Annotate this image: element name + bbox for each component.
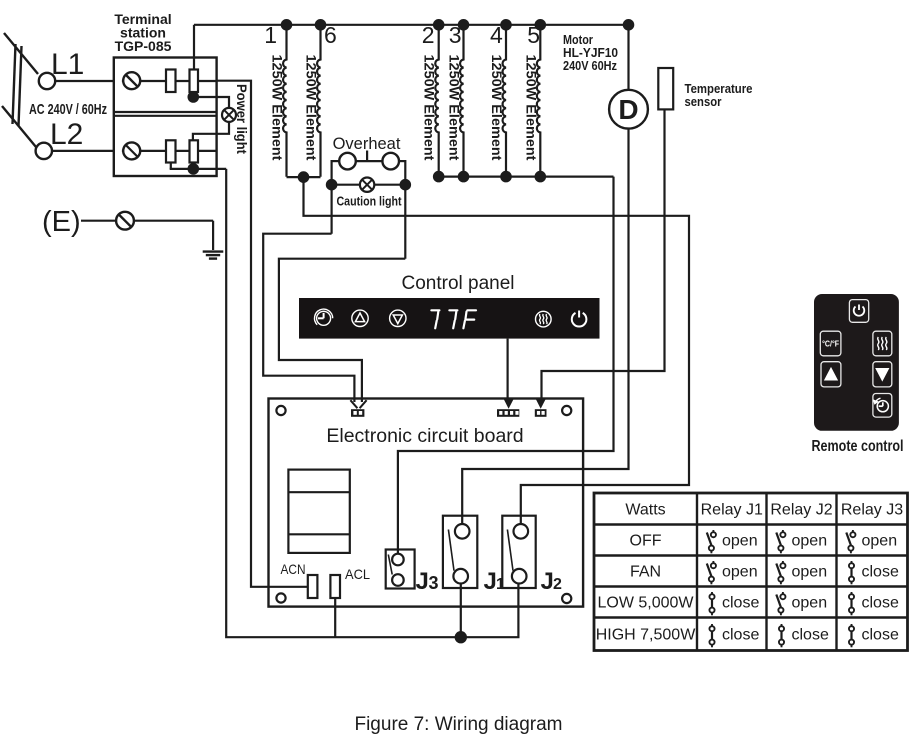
svg-text:Control panel: Control panel bbox=[401, 273, 514, 294]
node L1 input terminal bbox=[39, 73, 55, 89]
svg-text:close: close bbox=[792, 627, 829, 644]
node element bottom junction bbox=[433, 171, 445, 183]
wire control panel to board connector bbox=[507, 339, 509, 398]
label 1250W Element (2) bbox=[422, 55, 438, 161]
connector CN3 bbox=[535, 409, 547, 417]
heating element 2 (1250W) bbox=[435, 25, 438, 177]
svg-text:1250W Element: 1250W Element bbox=[523, 55, 539, 161]
fuse block L1a bbox=[166, 70, 176, 93]
relay state open (OFF J1) bbox=[707, 530, 758, 553]
caution light lamp bbox=[332, 178, 406, 192]
label element number 4 bbox=[490, 22, 503, 48]
relay state close (LOW 5,000W J1) bbox=[709, 592, 759, 615]
relay state open (LOW 5,000W J2) bbox=[776, 592, 827, 615]
svg-text:J: J bbox=[416, 568, 429, 595]
node L2 input terminal bbox=[36, 143, 52, 159]
heating element 4 (1250W) bbox=[503, 25, 506, 177]
label Overheat bbox=[333, 135, 401, 153]
label Terminal station TGP-085 bbox=[114, 11, 171, 54]
label Caution light bbox=[337, 195, 403, 209]
overheat switch bbox=[332, 151, 406, 170]
label Temperature sensor bbox=[685, 82, 753, 109]
svg-text:1250W Element: 1250W Element bbox=[489, 55, 505, 161]
svg-text:L1: L1 bbox=[51, 48, 84, 81]
node element bottom junction bbox=[535, 171, 547, 183]
svg-text:open: open bbox=[862, 533, 898, 550]
table header Relay J1 bbox=[701, 501, 763, 518]
label Power light bbox=[234, 84, 249, 154]
node element 6 top bbox=[315, 19, 327, 31]
control panel bezel bbox=[299, 298, 600, 339]
svg-text:TGP-085: TGP-085 bbox=[115, 38, 172, 54]
screw terminal L1 bbox=[122, 72, 217, 89]
label L1 bbox=[51, 48, 84, 81]
relay J2 bbox=[502, 516, 535, 588]
label element number 3 bbox=[449, 22, 462, 48]
svg-text:3: 3 bbox=[449, 22, 462, 48]
board mounting hole bbox=[562, 406, 571, 415]
label element number 6 bbox=[324, 22, 337, 48]
wire elements 2-5 to relay J3 bbox=[398, 177, 614, 554]
node element 4 top bbox=[500, 19, 512, 31]
heating element 6 (1250W) bbox=[317, 25, 320, 177]
svg-text:Watts: Watts bbox=[625, 501, 665, 518]
screw terminal E bbox=[116, 212, 134, 230]
label J1 bbox=[484, 568, 506, 595]
relay state close (HIGH 7,500W J2) bbox=[779, 624, 829, 647]
label J3 bbox=[416, 568, 439, 595]
svg-text:5: 5 bbox=[527, 22, 540, 48]
svg-text:Relay J3: Relay J3 bbox=[841, 501, 903, 518]
node element 3 top bbox=[458, 19, 470, 31]
svg-text:J: J bbox=[541, 568, 554, 595]
label 1250W Element (3) bbox=[447, 55, 463, 161]
svg-text:close: close bbox=[722, 627, 759, 644]
table row label FAN bbox=[630, 564, 661, 581]
label Control panel bbox=[401, 273, 514, 294]
svg-text:Motor: Motor bbox=[563, 33, 593, 47]
relay state open (OFF J2) bbox=[776, 530, 827, 553]
remote down button bbox=[873, 362, 892, 387]
svg-text:close: close bbox=[722, 595, 759, 612]
node element 1 top bbox=[281, 19, 293, 31]
svg-text:1: 1 bbox=[264, 22, 277, 48]
label element number 5 bbox=[527, 22, 540, 48]
table row label HIGH 7,500W bbox=[596, 627, 696, 644]
svg-text:Overheat: Overheat bbox=[333, 135, 401, 153]
ground symbol bbox=[203, 252, 224, 259]
relay state open (FAN J2) bbox=[776, 561, 827, 584]
wire L1 to ACN bbox=[217, 81, 308, 587]
remote heat button bbox=[873, 331, 892, 356]
node caution right bbox=[400, 179, 412, 191]
remote C/F button bbox=[820, 331, 841, 356]
svg-text:LOW 5,000W: LOW 5,000W bbox=[597, 595, 694, 612]
heating element 1 (1250W) bbox=[283, 25, 286, 177]
svg-text:J: J bbox=[484, 568, 497, 595]
control panel timer icon bbox=[315, 309, 333, 325]
wire temperature sensor to board connector bbox=[542, 109, 665, 398]
relay state close (HIGH 7,500W J3) bbox=[849, 624, 899, 647]
remote power button bbox=[849, 300, 868, 323]
wire L2 to bottom rail bbox=[226, 169, 518, 637]
svg-text:open: open bbox=[722, 564, 758, 581]
board mounting hole bbox=[562, 594, 571, 603]
label ACN bbox=[281, 561, 306, 577]
svg-text:Relay J2: Relay J2 bbox=[770, 501, 832, 518]
svg-text:FAN: FAN bbox=[630, 564, 661, 581]
svg-text:Temperature: Temperature bbox=[685, 82, 753, 96]
label element number 2 bbox=[422, 22, 435, 48]
svg-text:1: 1 bbox=[496, 576, 505, 593]
relay state open (OFF J3) bbox=[846, 530, 897, 553]
wire motor to relay J1 bbox=[462, 129, 628, 525]
wire earth bbox=[81, 221, 213, 250]
svg-text:Remote control: Remote control bbox=[812, 438, 904, 455]
svg-text:2: 2 bbox=[422, 22, 435, 48]
svg-text:°C/°F: °C/°F bbox=[822, 339, 839, 349]
fuse block L2a bbox=[166, 140, 176, 162]
label 1250W Element (5) bbox=[523, 55, 539, 161]
heating element 3 (1250W) bbox=[460, 25, 463, 177]
node element 5 top bbox=[535, 19, 547, 31]
wire power light to fuse L2b bbox=[193, 121, 229, 140]
label 1250W Element (4) bbox=[489, 55, 505, 161]
wire L2 input to terminal station bbox=[52, 150, 114, 152]
svg-text:close: close bbox=[862, 627, 899, 644]
wire fuse L1b to power light bbox=[193, 97, 229, 108]
label ACL bbox=[345, 566, 370, 582]
node below fuse L1b bbox=[188, 91, 200, 103]
power light lamp bbox=[222, 108, 236, 122]
wire relay J1 bottom bbox=[460, 584, 462, 638]
label Electronic circuit board bbox=[326, 425, 523, 447]
fuse block L1b bbox=[190, 70, 199, 93]
svg-text:6: 6 bbox=[324, 22, 337, 48]
terminal station TGP-085 box bbox=[114, 58, 217, 177]
relay state open (FAN J1) bbox=[707, 561, 758, 584]
label J2 bbox=[541, 568, 563, 595]
connector CN1 arrow bbox=[350, 400, 366, 408]
node element 2 top bbox=[433, 19, 445, 31]
svg-text:1250W Element: 1250W Element bbox=[447, 55, 463, 161]
wire elements 1+6 bottom join bbox=[287, 176, 321, 178]
svg-text:240V 60Hz: 240V 60Hz bbox=[563, 59, 617, 73]
wire motor feed bbox=[627, 25, 629, 90]
svg-text:open: open bbox=[792, 533, 828, 550]
connector CN3 arrow bbox=[536, 399, 545, 408]
connector CN2 bbox=[497, 409, 519, 417]
board mounting hole bbox=[276, 406, 285, 415]
motor D bbox=[609, 90, 648, 129]
svg-text:Relay J1: Relay J1 bbox=[701, 501, 763, 518]
svg-text:Electronic circuit board: Electronic circuit board bbox=[326, 425, 523, 447]
control panel up icon bbox=[352, 310, 368, 326]
svg-text:open: open bbox=[722, 533, 758, 550]
label Remote control bbox=[812, 438, 904, 455]
transformer T1 bbox=[288, 470, 349, 553]
svg-text:close: close bbox=[862, 564, 899, 581]
wire L1 input to terminal station bbox=[55, 80, 114, 82]
wire caution left to board connector bbox=[263, 234, 354, 402]
board mounting hole bbox=[276, 593, 285, 602]
node below fuse L2b bbox=[188, 163, 200, 175]
svg-text:ACL: ACL bbox=[345, 566, 370, 582]
label 1250W Element (1) bbox=[270, 55, 286, 161]
wire top bus bbox=[194, 24, 629, 26]
wire overheat right side bbox=[404, 160, 406, 259]
svg-text:AC 240V / 60Hz: AC 240V / 60Hz bbox=[29, 101, 107, 118]
relay state close (HIGH 7,500W J1) bbox=[709, 624, 759, 647]
svg-text:OFF: OFF bbox=[630, 533, 662, 550]
label 1250W Element (6) bbox=[304, 55, 320, 161]
caption Figure 7: Wiring diagram bbox=[354, 714, 562, 735]
svg-text:HIGH 7,500W: HIGH 7,500W bbox=[596, 627, 696, 644]
node caution left bbox=[326, 179, 338, 191]
svg-text:HL-YJF10: HL-YJF10 bbox=[563, 46, 618, 60]
relay state close (LOW 5,000W J3) bbox=[849, 592, 899, 615]
label element number 1 bbox=[264, 22, 277, 48]
table header Relay J2 bbox=[770, 501, 832, 518]
remote timer button bbox=[873, 394, 892, 418]
wire elements 2-5 bottom bus bbox=[439, 176, 614, 178]
node elements 1+6 junction bbox=[298, 171, 310, 183]
electronic circuit board outline bbox=[269, 399, 584, 607]
svg-text:1250W Element: 1250W Element bbox=[422, 55, 438, 161]
display 77F bbox=[431, 310, 476, 328]
wire caution right to board connector bbox=[279, 259, 405, 402]
control panel power icon bbox=[572, 311, 587, 327]
svg-text:(E): (E) bbox=[42, 206, 81, 238]
svg-text:1250W Element: 1250W Element bbox=[304, 55, 320, 161]
remote up button bbox=[821, 362, 841, 387]
wire ACL to bottom rail bbox=[334, 598, 336, 637]
wire elements 1+6 to relay J2 bbox=[304, 177, 690, 524]
screw terminal L2 bbox=[122, 142, 217, 159]
pin ACN bbox=[308, 575, 318, 598]
svg-text:4: 4 bbox=[490, 22, 503, 48]
svg-text:ACN: ACN bbox=[281, 561, 306, 577]
svg-text:3: 3 bbox=[429, 573, 439, 593]
svg-text:2: 2 bbox=[553, 576, 562, 593]
svg-text:open: open bbox=[792, 564, 828, 581]
svg-text:Power light: Power light bbox=[234, 84, 249, 154]
svg-text:open: open bbox=[792, 595, 828, 612]
svg-text:Caution light: Caution light bbox=[337, 195, 403, 209]
fuse block L2b bbox=[190, 140, 199, 162]
heating element 5 (1250W) bbox=[537, 25, 540, 177]
node bottom rail junction bbox=[455, 631, 467, 643]
svg-text:L2: L2 bbox=[50, 118, 83, 151]
relay J3 bbox=[386, 550, 415, 589]
connector CN2 arrow bbox=[504, 399, 513, 408]
svg-text:sensor: sensor bbox=[685, 95, 722, 109]
node element bottom junction bbox=[500, 171, 512, 183]
relay state table grid bbox=[594, 493, 908, 651]
label (E) bbox=[42, 206, 81, 238]
wire below fuse L2a bbox=[170, 163, 172, 169]
control panel heat icon bbox=[536, 311, 552, 327]
svg-text:close: close bbox=[862, 595, 899, 612]
svg-text:1250W Element: 1250W Element bbox=[270, 55, 286, 161]
table header Relay J3 bbox=[841, 501, 903, 518]
wire fuse L1b up to top bus bbox=[193, 25, 195, 70]
table header Watts bbox=[625, 501, 665, 518]
table row label OFF bbox=[630, 533, 662, 550]
remote control body bbox=[814, 294, 899, 431]
temperature sensor bbox=[658, 68, 673, 109]
connector CN1 bbox=[351, 409, 364, 417]
label AC 240V / 60Hz bbox=[29, 101, 107, 118]
relay state close (FAN J3) bbox=[849, 561, 899, 584]
svg-text:D: D bbox=[618, 94, 638, 125]
control panel down icon bbox=[390, 310, 406, 326]
node motor top bbox=[623, 19, 635, 31]
label Motor HL-YJF10 240V 60Hz bbox=[563, 33, 618, 73]
relay J1 bbox=[443, 516, 477, 588]
pin ACL bbox=[330, 575, 340, 598]
table row label LOW 5,000W bbox=[597, 595, 694, 612]
svg-text:Figure 7: Wiring diagram: Figure 7: Wiring diagram bbox=[354, 714, 562, 735]
cable entry sheath bbox=[2, 33, 38, 147]
wire overheat left side bbox=[331, 160, 333, 234]
label L2 bbox=[50, 118, 83, 151]
wire L2 row to ACL drop bbox=[170, 168, 227, 170]
node element bottom junction bbox=[458, 171, 470, 183]
